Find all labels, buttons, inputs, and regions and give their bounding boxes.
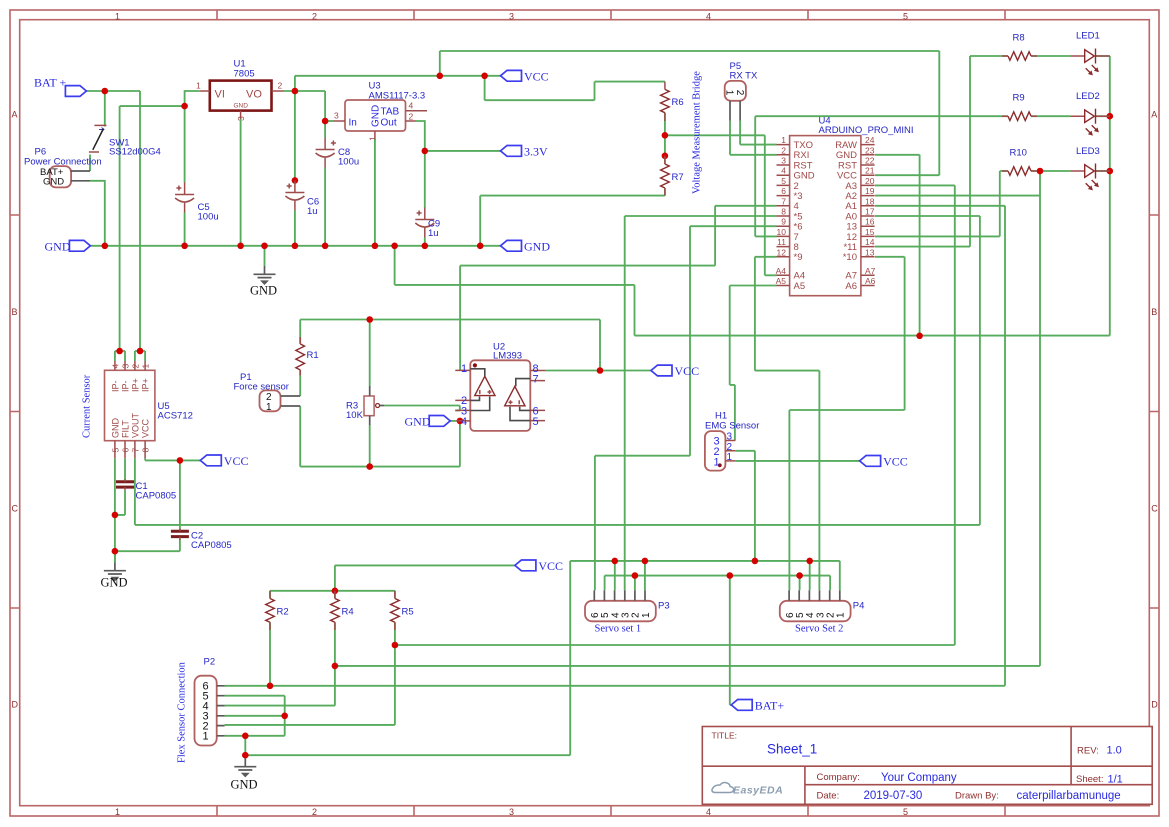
svg-text:20: 20 [865, 176, 875, 186]
junction divider mid [662, 132, 669, 139]
wire U3 GND pin 1 to rail [374, 139, 376, 246]
connector P4 servo [780, 601, 851, 622]
svg-text:Sheet:: Sheet: [1076, 774, 1103, 785]
svg-text:RX TX: RX TX [730, 71, 758, 82]
junction rail1 P4-4 [806, 558, 813, 565]
junction LED2 cathode [1107, 113, 1114, 120]
svg-text:3: 3 [509, 807, 514, 817]
svg-text:LM393: LM393 [493, 351, 522, 362]
svg-text:C: C [12, 504, 19, 514]
wire R6 bottom divider mid to U4 pin A4 [665, 113, 777, 276]
svg-text:GND: GND [110, 418, 120, 439]
U2 pin1 marker dot [473, 363, 477, 367]
junction U5 IP+ pins [137, 348, 144, 355]
junction VI C5 [181, 103, 188, 110]
svg-text:VCC: VCC [538, 559, 563, 573]
junction GND link pin23 [916, 333, 923, 340]
svg-text:ARDUINO_PRO_MINI: ARDUINO_PRO_MINI [819, 125, 914, 136]
svg-text:5: 5 [781, 176, 786, 186]
svg-text:19: 19 [865, 186, 875, 196]
wire U4 pin20 A3 to R5 bottom line [395, 185, 955, 645]
junction rail2 P4-5 [796, 572, 803, 579]
svg-text:1/1: 1/1 [1108, 774, 1123, 786]
svg-text:4: 4 [110, 364, 120, 369]
svg-text:4: 4 [409, 101, 414, 111]
U5 top pin stubs [115, 361, 145, 370]
wire R8 to LED1 [1031, 55, 1110, 57]
R3 wiper circle and stub [376, 404, 380, 408]
svg-text:9: 9 [781, 217, 786, 227]
wire U4 pin7 to U2 pin 1 [460, 206, 776, 371]
svg-text:GND: GND [250, 284, 277, 298]
svg-text:TITLE:: TITLE: [712, 731, 738, 741]
junction VCC divider feed [481, 73, 488, 80]
svg-text:D: D [1151, 700, 1158, 710]
svg-text:Company:: Company: [817, 772, 860, 783]
wire LED cathode column down to GND link [1109, 56, 1111, 336]
svg-text:5: 5 [903, 12, 908, 22]
P3 pin stubs [594, 590, 645, 601]
svg-text:8: 8 [781, 207, 786, 217]
diode LED3 [1071, 170, 1110, 172]
junction GND rail P6 [102, 243, 109, 250]
net flag BAT+ bottom [731, 700, 752, 711]
svg-text:1: 1 [641, 612, 652, 618]
svg-text:100u: 100u [338, 157, 359, 168]
P6 pin stubs [71, 171, 91, 181]
U4 left pin stubs [777, 145, 790, 286]
frame ruler ticks right [1149, 215, 1159, 608]
svg-text:EMG Sensor: EMG Sensor [705, 421, 759, 432]
svg-text:2: 2 [312, 12, 317, 22]
junction LED3 cathode [1107, 168, 1114, 175]
svg-text:A: A [1151, 110, 1157, 120]
svg-text:24: 24 [865, 135, 875, 145]
svg-text:5: 5 [533, 416, 539, 428]
svg-text:A7: A7 [865, 266, 876, 276]
wire H1 pin2 to rail1 [735, 451, 755, 561]
junction C2 to pin5 [112, 548, 119, 555]
svg-text:1: 1 [115, 807, 120, 817]
wire BAT+ junction down to switch SW1 [104, 91, 106, 127]
svg-text:1: 1 [714, 456, 720, 468]
svg-text:15: 15 [865, 227, 875, 237]
svg-text:VCC: VCC [524, 69, 549, 83]
R3 top and bottom leads [369, 386, 371, 425]
junction GND rail C5 [181, 243, 188, 250]
ground symbol main rail [264, 266, 266, 274]
svg-text:TAB: TAB [381, 107, 400, 118]
junction U5 IP- pins [116, 348, 123, 355]
svg-text:Current Sensor: Current Sensor [82, 374, 93, 438]
svg-text:1: 1 [727, 452, 733, 463]
svg-text:R2: R2 [277, 607, 289, 618]
wire U4 pin15 to R10 LED3 row [875, 171, 1008, 236]
resistor R8 [1008, 52, 1031, 61]
wire R4 top lead [334, 591, 336, 599]
wire BAT+ flag to junction and IP+ column [86, 91, 140, 351]
capacitor C5 [175, 194, 194, 196]
svg-text:2: 2 [278, 81, 283, 91]
net flag GND left [69, 240, 90, 251]
svg-text:Flex Sensor Connection: Flex Sensor Connection [177, 661, 188, 763]
resistor R9 [1008, 112, 1031, 121]
connector P3 servo [585, 601, 656, 622]
junction P2 pin1 GND [242, 733, 249, 740]
svg-text:GND: GND [231, 778, 258, 792]
svg-text:CAP0805: CAP0805 [136, 491, 177, 502]
U2 pin stubs left [455, 370, 470, 421]
junction GND rail C9 [422, 243, 429, 250]
svg-text:Force sensor: Force sensor [234, 382, 289, 393]
wire rail2 to P4 pin 5 [799, 576, 801, 591]
junction rail2 BAT+ [727, 572, 734, 579]
svg-text:IP+: IP+ [141, 378, 151, 392]
diode LED1 [1071, 55, 1110, 57]
wire GND rail [90, 245, 500, 247]
IC U5 ACS712 body [105, 370, 155, 440]
svg-text:R1: R1 [307, 350, 319, 361]
svg-text:100u: 100u [198, 212, 219, 223]
wire U1 VO output to VCC line and C6/U3-In column [283, 76, 501, 246]
wire U4 pin13 to P4 pin 6 [789, 257, 904, 590]
ground symbol P2 [244, 758, 246, 766]
wire R9 to LED2 [1031, 115, 1110, 117]
U2 pin stubs right [530, 371, 545, 421]
junction P2 GND line [242, 752, 249, 759]
svg-text:4: 4 [781, 166, 786, 176]
svg-text:GND: GND [45, 240, 71, 254]
junction U2 pin4 GND [457, 418, 464, 425]
wire GND flag to U2 pin 4 [450, 420, 455, 422]
P4 pin stubs [789, 590, 840, 601]
U2 comparator A triangle [475, 376, 495, 395]
svg-text:1: 1 [266, 402, 272, 413]
svg-text:22: 22 [865, 156, 875, 166]
frame ruler ticks top [217, 10, 1005, 20]
net flag 3.3V [501, 146, 522, 157]
wire R3 wiper to U2 pin 3 [384, 406, 460, 411]
P1 pin stubs [281, 396, 301, 406]
wire GND symbol stem [264, 246, 266, 266]
svg-text:Voltage Measurement Bridge: Voltage Measurement Bridge [692, 71, 703, 194]
wire rail1 right end to P4 pin 1 [839, 561, 841, 590]
svg-text:1: 1 [368, 136, 378, 141]
svg-text:ACS712: ACS712 [158, 411, 193, 422]
svg-text:7: 7 [781, 196, 786, 206]
U4 right pin stubs [861, 145, 875, 286]
svg-text:R10: R10 [1010, 148, 1027, 159]
svg-text:5: 5 [903, 807, 908, 817]
wire C2 bottom jog to pin5 column [115, 539, 180, 552]
wire U4 pin9 to P3 pin 6 [595, 226, 777, 590]
wire C1 bottom jog to pin5 column [115, 490, 125, 515]
svg-text:A5: A5 [776, 276, 787, 286]
wire servo rail 1 (GND) with drop to P2 GND line [245, 561, 840, 755]
connector P6 Power Connection [50, 166, 71, 187]
U2 comparator A internal wiring [470, 369, 489, 411]
capacitor C6 [285, 192, 304, 194]
svg-text:Sheet_1: Sheet_1 [767, 742, 817, 757]
svg-text:P4: P4 [853, 601, 865, 612]
frame ruler ticks bottom [217, 806, 1005, 816]
svg-text:GND: GND [101, 576, 128, 590]
potentiometer R3 10K body [364, 396, 374, 416]
svg-text:3: 3 [334, 111, 339, 121]
junction GND rail C6 [292, 243, 299, 250]
wire U5 GND symbol stem [114, 551, 116, 562]
U2 comparator B triangle [505, 386, 525, 405]
svg-text:Out: Out [381, 118, 397, 129]
svg-text:R4: R4 [342, 607, 354, 618]
wire U4 pin12 to P4 pin 3 [755, 257, 820, 590]
svg-text:VI: VI [215, 89, 225, 101]
svg-text:A6: A6 [865, 276, 876, 286]
svg-text:1: 1 [196, 81, 201, 91]
svg-text:REV:: REV: [1077, 746, 1099, 757]
title block dividers [702, 727, 1152, 805]
frame ruler ticks left [10, 215, 20, 608]
wire P6 GND pin to GND rail [90, 181, 105, 246]
svg-text:VCC: VCC [675, 364, 700, 378]
IC U4 ARDUINO_PRO_MINI body [790, 136, 861, 296]
junction VO output [292, 88, 299, 95]
wire U5 pin6 to C1 [124, 458, 126, 480]
svg-text:Power Connection: Power Connection [24, 157, 102, 168]
wire U4 pin A5 to H1 pin 3 (EMG signal) [730, 286, 777, 441]
svg-text:GND: GND [43, 177, 64, 188]
wire U4 pin10 to R9 LED2 row [755, 116, 1008, 236]
junction VCC rail branch [437, 73, 444, 80]
svg-text:VOUT: VOUT [130, 412, 140, 438]
svg-text:17: 17 [865, 207, 875, 217]
junction GND rail C8 [322, 243, 329, 250]
wire P2 pin5 pin3 pin1 common column [225, 696, 285, 736]
svg-text:R5: R5 [402, 607, 414, 618]
svg-text:3: 3 [509, 12, 514, 22]
svg-text:EasyEDA: EasyEDA [733, 785, 783, 797]
svg-text:18: 18 [865, 196, 875, 206]
junction R4 top [332, 588, 339, 595]
svg-text:Your Company: Your Company [881, 772, 957, 784]
svg-text:A: A [12, 110, 18, 120]
wire U4 pin19 A2 to R10-LED3 junction and down to R4 line [875, 171, 1040, 666]
svg-text:CAP0805: CAP0805 [191, 540, 232, 551]
svg-text:VCC: VCC [883, 454, 908, 468]
wire P1 pin1 down to GND loop [300, 406, 460, 467]
svg-text:B: B [12, 307, 18, 317]
svg-text:1: 1 [781, 135, 786, 145]
svg-text:1: 1 [836, 612, 847, 618]
svg-text:A6: A6 [845, 281, 857, 292]
svg-text:Servo Set 2: Servo Set 2 [795, 624, 843, 635]
junction R3 top [366, 316, 373, 323]
svg-text:Date:: Date: [817, 791, 840, 802]
wire rail2 right end to P4 pin 2 [829, 576, 831, 591]
svg-text:GND: GND [405, 414, 431, 428]
svg-text:LED2: LED2 [1076, 91, 1100, 102]
svg-text:*10: *10 [843, 252, 857, 263]
svg-text:7: 7 [130, 448, 140, 453]
svg-text:12: 12 [777, 247, 787, 257]
wire R3 bottom lead [369, 425, 371, 467]
junction R10 LED3 A2 [1037, 168, 1044, 175]
svg-text:11: 11 [777, 237, 786, 247]
svg-text:C: C [1151, 504, 1158, 514]
svg-text:R8: R8 [1013, 33, 1025, 44]
svg-text:SS12d00G4: SS12d00G4 [109, 147, 161, 158]
junction R7 top [662, 153, 669, 160]
wire U4 pin14 to R8 LED1 row [875, 56, 1008, 247]
svg-text:*9: *9 [794, 252, 803, 263]
wire P5 pin1 to U4 RXI [730, 121, 777, 155]
svg-text:10: 10 [777, 227, 787, 237]
junction rail1 P3-4 [612, 558, 619, 565]
svg-text:14: 14 [865, 237, 875, 247]
junction GND rail U3-1 [372, 243, 379, 250]
svg-text:1: 1 [115, 12, 120, 22]
svg-text:4: 4 [706, 12, 711, 22]
resistor R6 [661, 89, 670, 112]
wire U1 VI input net with C5 column and IP- column [120, 91, 200, 351]
svg-text:B: B [1151, 307, 1157, 317]
wire servo rail 2 (BAT+) [605, 575, 831, 577]
wire rail1 to P3 pin 4 [614, 561, 616, 590]
svg-text:8: 8 [141, 448, 151, 453]
capacitor C9 [415, 219, 434, 221]
junction R4 bottom A2 [332, 663, 339, 670]
P5 pin stubs [730, 101, 740, 121]
svg-text:In: In [349, 118, 357, 129]
wire VCC branch to R6 top (voltage divider feed) [485, 76, 665, 100]
svg-text:2019-07-30: 2019-07-30 [864, 790, 923, 802]
net flag VCC top [501, 70, 522, 81]
svg-text:3.3V: 3.3V [524, 144, 548, 158]
net flag VCC bottom pullups [515, 560, 536, 571]
wire U3 In pin to C8 column [325, 120, 334, 122]
junction rail1 P3-1 [642, 558, 649, 565]
svg-text:GND: GND [524, 239, 550, 253]
wire rail2 left end to P3 pin 5 [604, 576, 606, 591]
svg-text:BAT +: BAT + [34, 76, 66, 90]
H1 pin1 marker dot [718, 463, 722, 467]
svg-text:caterpillarbamunuge: caterpillarbamunuge [1017, 790, 1121, 802]
EasyEDA logo [712, 783, 783, 797]
switch SW1 SS12d00G4 [94, 124, 106, 126]
svg-text:1: 1 [141, 364, 151, 369]
wire R3 top lead [369, 320, 371, 387]
net flag VCC at U5 [200, 455, 221, 466]
svg-text:2: 2 [312, 807, 317, 817]
wire U5 VOUT pin7 down [134, 458, 136, 525]
wire rail1 to P3 pin 1 [644, 561, 646, 590]
svg-text:IP-: IP- [110, 380, 120, 392]
wire R1 column [299, 320, 301, 397]
svg-text:BAT+: BAT+ [755, 698, 785, 712]
svg-text:Drawn By:: Drawn By: [955, 791, 999, 802]
svg-text:R7: R7 [672, 172, 684, 183]
wire U1 GND pin 3 to rail [240, 119, 242, 246]
wire R5 bottom to A3 line and P2 pin 2 [225, 622, 395, 725]
wire P5 pin2 to U4 TXO [740, 121, 776, 145]
connector P1 Force sensor [260, 390, 281, 411]
wire P2 pin1 down to GND symbol [244, 736, 246, 759]
wire H1 pin1 to VCC flag [735, 460, 859, 462]
svg-text:LED1: LED1 [1076, 31, 1100, 42]
wire U5 top tie bars IP- IP+ [115, 351, 145, 361]
U5 bottom pin stubs [115, 441, 145, 459]
svg-text:Servo set 1: Servo set 1 [595, 624, 642, 635]
svg-text:P2: P2 [204, 657, 216, 668]
wire U5 pin8 VCC to flag and C2 [145, 458, 200, 531]
svg-text:GND: GND [234, 103, 249, 110]
diode LED2 [1071, 115, 1110, 117]
svg-text:3: 3 [781, 156, 786, 166]
svg-text:VO: VO [246, 89, 262, 101]
regulator U1 7805 [210, 81, 272, 111]
junction U3 In [322, 118, 329, 125]
junction GND rail link [391, 243, 398, 250]
wire VCC bottom flag to R2 R4 R5 tops [270, 565, 515, 590]
wire rail1 to P4 pin 4 [809, 561, 811, 590]
wire R2 bottom to P2 pin6 line [269, 622, 271, 686]
H1 pin stubs [725, 441, 735, 461]
wire rail2 down to BAT+ flag [730, 576, 731, 705]
wire rail2 to P3 pin 2 [634, 576, 636, 591]
junction P2 pin3 [281, 713, 288, 720]
connector P5 RX TX [725, 81, 746, 101]
junction rail2 P3-2 [632, 572, 639, 579]
title block outer box [702, 727, 1152, 805]
junction C6 top [292, 177, 299, 184]
net flag VCC at U2 pin 8 [651, 365, 672, 376]
resistor R5 [391, 599, 400, 623]
svg-text:VCC: VCC [141, 418, 151, 438]
svg-text:LED3: LED3 [1076, 146, 1100, 157]
junction rail1 H1-2 [752, 558, 759, 565]
svg-text:R6: R6 [672, 97, 684, 108]
resistor R4 [331, 599, 340, 623]
svg-text:6: 6 [121, 448, 131, 453]
svg-text:21: 21 [865, 166, 875, 176]
svg-text:IP+: IP+ [130, 378, 140, 392]
svg-text:IP-: IP- [120, 380, 130, 392]
wire switch bottom to P6 BAT+ pin [89, 155, 91, 172]
svg-text:1: 1 [461, 363, 467, 375]
svg-text:VCC: VCC [224, 454, 249, 468]
U2 comparator B internal wiring [510, 379, 530, 421]
wire VCC branch up to top rail toward U4 pin 21 [440, 51, 940, 175]
junction R5 bottom A3 [392, 642, 399, 649]
resistor R2 [266, 599, 275, 623]
wire U4 pin17 A0 to U5 VOUT line [135, 216, 980, 525]
wire R7 bottom to GND rail [480, 188, 665, 246]
wire R2 top lead [269, 591, 271, 599]
svg-text:FILT: FILT [120, 420, 130, 438]
wire GND link from rail through A5-corner to pin23 junction and LED cathodes [395, 246, 1110, 336]
connector H1 EMG Sensor [705, 431, 726, 471]
svg-text:2: 2 [734, 90, 745, 96]
junction GND rail U1-3 [237, 243, 244, 250]
wire R5 top lead [394, 591, 396, 599]
junction C1 to pin5 [112, 512, 119, 519]
P2 pin stubs [217, 686, 225, 736]
svg-text:1: 1 [203, 731, 209, 743]
svg-text:1.0: 1.0 [1107, 745, 1122, 757]
svg-text:2: 2 [409, 112, 414, 122]
svg-text:3: 3 [121, 364, 131, 369]
junction GND rail R7 [477, 243, 484, 250]
